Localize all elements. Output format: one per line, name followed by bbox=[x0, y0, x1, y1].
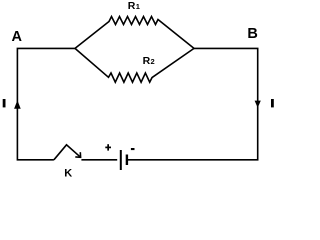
wire: top-left horizontal + left vertical + bottom-left bbox=[17, 48, 75, 159]
switch arrowhead bbox=[75, 152, 80, 157]
battery negative plate (short) bbox=[126, 155, 128, 166]
switch K blade bbox=[54, 145, 81, 160]
current label I right bbox=[271, 99, 274, 107]
resistor R1 bbox=[75, 17, 194, 49]
current label I left bbox=[3, 99, 6, 107]
wire: top-right horizontal + right vertical + bottom-right bbox=[127, 48, 257, 159]
current arrow left (up) bbox=[14, 100, 21, 109]
svg-text:R2: R2 bbox=[143, 55, 155, 67]
battery positive plate (long) bbox=[120, 150, 122, 170]
battery + label bbox=[105, 144, 111, 150]
wire: bottom middle (switch to battery) bbox=[81, 159, 117, 161]
battery - label bbox=[131, 148, 135, 150]
resistor R2 bbox=[75, 48, 194, 82]
current arrow right (down) bbox=[255, 101, 261, 108]
svg-text:B: B bbox=[247, 26, 257, 42]
svg-text:A: A bbox=[12, 29, 23, 45]
svg-text:R1: R1 bbox=[128, 0, 140, 12]
svg-text:K: K bbox=[64, 167, 72, 179]
